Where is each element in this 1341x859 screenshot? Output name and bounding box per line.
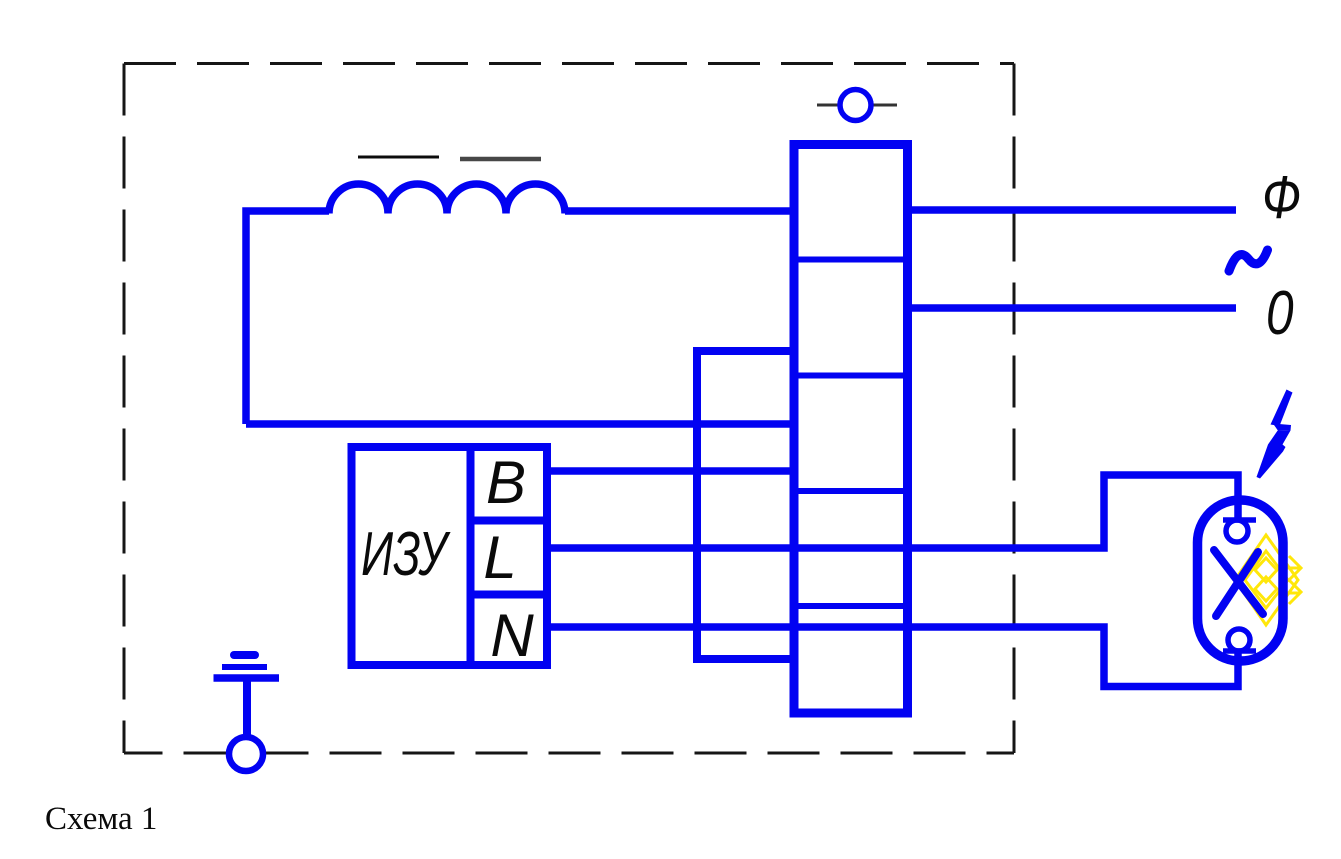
lamp cross stroke 1 [1214, 550, 1263, 614]
ornament medium diamond [1245, 551, 1288, 608]
svg-text:Ф: Ф [1262, 163, 1301, 231]
luminaire enclosure dashed border [124, 64, 1014, 754]
label F (phase) [1262, 163, 1301, 231]
wire: IZU terminal N through terminal block to lamp bracket [547, 627, 1238, 687]
ornament tick upper [1287, 567, 1300, 570]
wire: choke output to terminal block (phase) [565, 207, 794, 215]
wire: loop bottom from left side to terminal block [246, 420, 794, 428]
ballast choke L1 winding [329, 184, 565, 214]
IZU cell divider L/N [471, 591, 548, 599]
cable entry box [697, 351, 794, 659]
IZU cell divider B/L [471, 517, 548, 525]
svg-text:L: L [483, 524, 516, 591]
lamp bulb outline EL1 [1198, 500, 1284, 661]
wire: IZU terminal L through terminal block to lamp bracket [547, 475, 1238, 548]
wire: loop left side from choke input down [246, 211, 329, 424]
ground stem [243, 676, 251, 737]
terminal block divider 1 [794, 257, 908, 263]
lamp bottom electrode bar [1223, 648, 1256, 654]
ornament small diamond upper [1255, 558, 1277, 582]
ornament big diamond [1235, 535, 1298, 625]
lamp top electrode bar [1223, 517, 1256, 523]
terminal block XT1 [794, 145, 908, 714]
wire: phase output to label F [908, 206, 1236, 214]
suspension line through hanger [817, 104, 897, 107]
svg-text:B: B [486, 449, 526, 516]
IZU internal divider [467, 447, 475, 665]
svg-text:Схема 1: Схема 1 [45, 801, 157, 837]
svg-text:N: N [490, 602, 534, 669]
ground bar middle [222, 664, 267, 670]
lamp top electrode circle [1226, 520, 1248, 542]
IZU ignitor box [352, 447, 548, 665]
ornament right chevron lower [1289, 580, 1301, 604]
terminal block divider 4 [794, 603, 908, 609]
ornament tick lower [1287, 592, 1300, 595]
lamp cross stroke 2 [1216, 552, 1258, 616]
AC tilde symbol [1229, 250, 1268, 271]
terminal block divider 3 [794, 488, 908, 494]
hanger eyelet circle [840, 90, 871, 121]
terminal block divider 2 [794, 373, 908, 379]
ground bar wide [214, 674, 280, 682]
label 0 (neutral) [1266, 278, 1294, 348]
svg-text:ИЗУ: ИЗУ [361, 520, 451, 589]
svg-text:0: 0 [1266, 278, 1294, 348]
ground terminal circle [229, 737, 263, 771]
ballast choke core dash 2 [460, 157, 541, 162]
ballast choke core dash 1 [358, 156, 439, 159]
wire: IZU terminal B to terminal block [547, 467, 794, 475]
ornament right chevron upper [1289, 556, 1301, 580]
wire: neutral output to label 0 [908, 304, 1236, 312]
lamp bottom electrode circle [1228, 629, 1250, 651]
ornament small diamond lower [1255, 577, 1277, 601]
ignition lightning bolt [1257, 390, 1293, 479]
ground bar top [234, 651, 255, 659]
